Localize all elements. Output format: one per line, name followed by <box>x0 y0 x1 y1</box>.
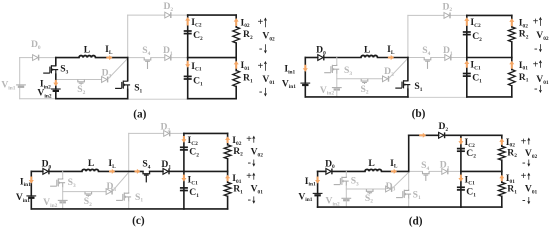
wire node up to D2 rail (b) <box>407 15 409 57</box>
arrow V01 down (b) <box>539 85 541 92</box>
current arrow IC2 (b) <box>464 17 469 26</box>
svg-text:(a): (a) <box>133 108 146 120</box>
switch S3 (b) <box>324 65 339 74</box>
battery Vin2 (b) <box>332 88 342 90</box>
svg-text:S4: S4 <box>142 45 150 57</box>
wire Vin2 to bottom (d) <box>345 200 347 207</box>
arrow V02 down (c) <box>253 160 255 166</box>
wire D2 rail right (d) <box>446 134 461 136</box>
svg-text:S2: S2 <box>77 84 85 96</box>
switch S4 (d) <box>423 171 430 181</box>
wire mid rail S4 to D1 (b) <box>431 57 445 59</box>
svg-text:V01: V01 <box>262 74 275 86</box>
arrow V02 up (d) <box>528 138 530 144</box>
wire S1 branch bottom (c) <box>128 202 130 209</box>
wire output box bottom rail (b) <box>467 96 512 98</box>
svg-text:S4: S4 <box>142 159 150 171</box>
svg-text:R1: R1 <box>507 184 517 196</box>
wire output box top rail (d) <box>461 134 502 136</box>
wire L to S4 (c) <box>99 170 144 172</box>
wire output box top rail (b) <box>467 14 512 16</box>
svg-text:S2: S2 <box>365 193 373 205</box>
current arrow IC2 (c) <box>181 136 186 143</box>
svg-text:D1: D1 <box>443 45 453 57</box>
svg-text:C2: C2 <box>189 147 199 159</box>
svg-text:C2: C2 <box>466 148 476 160</box>
wire S1 branch top (a) <box>127 58 129 81</box>
wire S2 path (d) <box>346 188 385 190</box>
wire S1 branch top (d) <box>408 171 410 189</box>
svg-text:L: L <box>368 158 374 169</box>
wire top rail right of L (d) <box>382 170 409 172</box>
diode D2 (c) <box>164 131 170 137</box>
wire output box top rail (c) <box>184 132 228 134</box>
svg-text:D3: D3 <box>384 66 394 78</box>
svg-text:S1: S1 <box>413 189 421 201</box>
wire top rail Vin1 to D0 (a) <box>20 57 33 59</box>
inductor L (a) <box>79 56 95 58</box>
svg-text:+: + <box>246 134 252 145</box>
wire R1 branch lower (c) <box>227 196 229 209</box>
svg-text:IL: IL <box>390 158 398 170</box>
wire C2 branch (d) <box>460 135 462 171</box>
switch S4 (c) <box>143 171 150 182</box>
wire bottom rail (d) <box>318 206 461 208</box>
wire output box middle rail (c) <box>184 170 228 172</box>
svg-text:C2: C2 <box>193 30 203 42</box>
svg-text:D3: D3 <box>106 181 116 193</box>
diode D0 (c) <box>43 169 49 175</box>
svg-text:-: - <box>248 158 251 169</box>
svg-text:-: - <box>534 44 537 55</box>
wire D0 to L (c) <box>50 170 82 172</box>
svg-text:D2: D2 <box>442 1 452 13</box>
current arrow into D2 (d) <box>419 133 426 138</box>
svg-text:V02: V02 <box>251 147 264 159</box>
wire mid rail D1 to box (b) <box>452 57 467 59</box>
diode D3 (d) <box>386 186 392 192</box>
arrow V01 down (a) <box>264 88 266 96</box>
svg-text:+: + <box>533 60 539 71</box>
svg-text:Vin2: Vin2 <box>320 85 334 97</box>
wire D2 rail right (b) <box>451 14 467 16</box>
svg-text:S3: S3 <box>68 177 76 189</box>
svg-text:+: + <box>246 171 252 182</box>
wire mid rail node to S4 (b) <box>408 57 424 59</box>
current arrow IC1 (b) <box>464 60 469 67</box>
wire D2 rail left (a) <box>128 14 165 16</box>
wire R1 branch upper (a) <box>235 58 237 71</box>
svg-text:Vin1: Vin1 <box>1 80 15 92</box>
wire R2 branch lower (b) <box>511 42 513 58</box>
diode D2 (b) <box>444 13 450 19</box>
diode D3 (b) <box>383 76 389 82</box>
wire mid rail node to S4 (a) <box>128 57 145 59</box>
current arrow into S4 (c) <box>135 169 141 174</box>
switch S1 (b) <box>395 80 410 89</box>
wire R2 branch upper (d) <box>501 135 503 146</box>
current arrow Iin2 (a) <box>53 80 58 86</box>
wire top rail right of L (b) <box>378 57 408 59</box>
current arrow Iin1 (b) <box>303 65 308 72</box>
svg-text:D0: D0 <box>31 39 41 51</box>
svg-text:L: L <box>84 44 90 55</box>
svg-text:IC2: IC2 <box>191 17 202 29</box>
wire C2 branch (c) <box>183 133 185 171</box>
svg-text:L: L <box>364 44 370 55</box>
wire S3 to Iin2 node (a) <box>55 74 57 89</box>
svg-text:Vin1: Vin1 <box>298 191 312 203</box>
current arrow I01 (b) <box>509 61 514 69</box>
svg-text:Iin1: Iin1 <box>305 176 316 188</box>
svg-text:D1: D1 <box>161 159 171 171</box>
diode D1 (c) <box>163 169 169 175</box>
wire S3 to Vin2 (b) <box>336 74 338 88</box>
wire R2 branch upper (b) <box>511 15 513 27</box>
svg-text:Iin1: Iin1 <box>20 176 31 188</box>
battery Vin2 (a) <box>51 89 61 91</box>
current arrow IC1 (d) <box>458 175 463 182</box>
wire node up to D2 rail (c) <box>128 133 130 171</box>
svg-text:R1: R1 <box>243 73 253 85</box>
wire Vin1 branch upper (b) <box>304 58 306 84</box>
diode D0 (a) <box>33 55 39 61</box>
svg-text:R1: R1 <box>519 72 529 84</box>
svg-text:S4: S4 <box>421 160 429 172</box>
wire S1 branch bottom (a) <box>127 89 129 98</box>
wire mid rail node to S4 (d) <box>409 170 423 172</box>
arrow V02 down (b) <box>539 44 541 51</box>
wire Vin2 to bottom (c) <box>62 202 64 209</box>
current arrow I02 (a) <box>234 18 239 26</box>
wire top rail Vin1 to D0 (b) <box>305 57 318 59</box>
current arrow IL (c) <box>109 169 115 174</box>
wire Vin2 to bottom (a) <box>55 91 57 99</box>
current arrow IC1 (c) <box>181 175 186 182</box>
current arrow IC2 (a) <box>185 17 190 26</box>
svg-text:D1: D1 <box>163 45 173 57</box>
svg-text:I02: I02 <box>241 17 250 29</box>
wire S2 path (c) <box>63 191 106 193</box>
svg-text:D2: D2 <box>163 1 173 13</box>
svg-text:+: + <box>257 61 263 72</box>
resistor R1 (b) <box>508 70 515 86</box>
svg-text:-: - <box>259 44 262 55</box>
svg-text:D1: D1 <box>440 160 450 172</box>
wire bottom link to box (a) <box>128 98 188 100</box>
resistor R2 (d) <box>498 146 505 160</box>
svg-text:R2: R2 <box>507 147 517 159</box>
wire R2 branch lower (c) <box>227 159 229 172</box>
wire bottom rail (a) <box>56 98 128 100</box>
wire output box top rail (a) <box>188 14 237 16</box>
svg-text:IC2: IC2 <box>188 135 199 147</box>
wire R1 branch lower (a) <box>235 87 237 99</box>
svg-text:V02: V02 <box>262 31 275 43</box>
svg-text:V02: V02 <box>536 30 549 42</box>
wire R1 branch upper (d) <box>501 171 503 182</box>
current arrow I02 (c) <box>225 136 230 143</box>
resistor R2 (c) <box>224 145 231 159</box>
current arrow I02 (b) <box>509 18 514 26</box>
svg-text:D2: D2 <box>160 122 170 134</box>
svg-text:R1: R1 <box>233 184 243 196</box>
svg-text:+: + <box>521 136 527 147</box>
switch S1 (a) <box>115 80 130 89</box>
svg-text:R2: R2 <box>519 29 529 41</box>
switch S1 (c) <box>116 192 131 201</box>
wire D0 to L (d) <box>333 170 365 172</box>
capacitor C2 (b) <box>463 32 471 35</box>
battery Vin1 (a) <box>16 85 26 87</box>
wire C1 branch (d) <box>460 171 462 207</box>
wire C1 branch (b) <box>466 58 468 97</box>
wire Vin1 branch lower (c) <box>30 198 32 209</box>
svg-text:C2: C2 <box>472 31 482 43</box>
switch S2 (b) <box>361 79 368 84</box>
svg-text:D0: D0 <box>316 45 326 57</box>
arrow V01 up (c) <box>253 174 255 180</box>
resistor R1 (d) <box>498 182 505 196</box>
svg-text:-: - <box>534 84 537 95</box>
wire D2 rail left (b) <box>408 14 444 16</box>
svg-text:I01: I01 <box>241 60 250 72</box>
wire top rail left of L (a) <box>56 57 79 59</box>
wire S3 branch top (c) <box>62 171 64 178</box>
arrow V01 up (a) <box>264 62 266 71</box>
svg-text:(b): (b) <box>412 108 426 120</box>
battery Vin1 (b) <box>300 83 310 85</box>
switch S3 (a) <box>43 65 58 74</box>
svg-text:V01: V01 <box>525 184 538 196</box>
wire R1 branch lower (b) <box>511 86 513 97</box>
current arrow I01 (c) <box>225 175 230 182</box>
current arrow I01 (d) <box>499 175 504 182</box>
resistor R2 (a) <box>233 27 240 43</box>
wire bottom link to box (b) <box>408 96 467 98</box>
svg-text:V01: V01 <box>536 74 549 86</box>
wire mid rail S4 to D1 (a) <box>151 57 165 59</box>
switch S4 (a) <box>144 58 151 69</box>
capacitor C2 (a) <box>184 31 192 34</box>
wire Vin1 branch lower (b) <box>304 85 306 97</box>
wire R1 branch upper (c) <box>227 171 229 182</box>
wire R1 branch upper (b) <box>511 58 513 70</box>
svg-text:V02: V02 <box>525 148 538 160</box>
battery Vin2 (d) <box>341 198 351 200</box>
diode D0 (b) <box>318 55 324 61</box>
resistor R1 (c) <box>224 182 231 196</box>
svg-text:IL: IL <box>387 44 395 56</box>
diode D1 (d) <box>442 169 448 175</box>
diode D2 (a) <box>165 12 171 18</box>
inductor L (c) <box>82 169 98 171</box>
wire diagonal D3 to node (b) <box>389 58 408 78</box>
svg-text:S1: S1 <box>134 83 142 95</box>
arrow V01 down (c) <box>253 196 255 203</box>
wire R1 branch lower (d) <box>501 196 503 207</box>
switch S2 (d) <box>366 189 373 194</box>
current arrow IC2 (d) <box>458 138 463 145</box>
switch S2 (c) <box>85 192 92 197</box>
wire D2 rail left (d) <box>409 134 439 136</box>
svg-text:C1: C1 <box>193 76 203 88</box>
svg-text:IL: IL <box>108 158 116 170</box>
wire top rail right of L (a) <box>96 57 128 59</box>
switch S3 (d) <box>334 177 349 186</box>
svg-text:IC1: IC1 <box>188 175 199 187</box>
svg-text:IC2: IC2 <box>470 17 481 29</box>
current arrow Iin1 (c) <box>29 177 34 184</box>
wire bottom rail (c) <box>31 208 184 210</box>
wire S1 branch top (c) <box>128 171 130 192</box>
wire R2 branch lower (a) <box>235 43 237 58</box>
svg-text:(d): (d) <box>409 215 423 227</box>
switch S3 (c) <box>50 178 65 187</box>
wire bottom Vin1 segment (a) <box>20 98 56 100</box>
wire Vin1 branch upper (c) <box>30 171 32 196</box>
diode D0 (d) <box>326 169 332 175</box>
svg-text:S3: S3 <box>60 64 68 76</box>
svg-text:IC1: IC1 <box>470 60 481 72</box>
capacitor C2 (d) <box>457 149 465 152</box>
current arrow IL (a) <box>106 55 112 60</box>
arrow V02 up (a) <box>264 18 266 27</box>
svg-text:R2: R2 <box>233 146 243 158</box>
diode D3 (c) <box>106 189 112 195</box>
capacitor C1 (a) <box>184 76 192 79</box>
wire bottom rail (b) <box>305 96 408 98</box>
battery Vin2 (c) <box>58 200 68 202</box>
svg-text:I01: I01 <box>519 60 528 72</box>
svg-text:D3: D3 <box>102 68 112 80</box>
svg-text:S3: S3 <box>351 176 359 188</box>
svg-text:Vin1: Vin1 <box>16 192 30 204</box>
svg-text:+: + <box>521 171 527 182</box>
svg-text:S1: S1 <box>135 192 143 204</box>
wire mid rail D1 to box (d) <box>449 170 461 172</box>
svg-text:C1: C1 <box>189 187 199 199</box>
svg-text:S1: S1 <box>414 81 422 93</box>
wire output box bottom rail (a) <box>188 98 237 100</box>
battery Vin1 (d) <box>313 193 323 195</box>
svg-text:IC1: IC1 <box>465 175 476 187</box>
svg-text:-: - <box>522 195 525 206</box>
svg-text:C1: C1 <box>466 187 476 199</box>
wire D1 to box (c) <box>170 170 184 172</box>
svg-text:R2: R2 <box>243 29 253 41</box>
capacitor C2 (c) <box>180 147 188 150</box>
switch S4 (b) <box>424 58 431 69</box>
svg-text:S3: S3 <box>344 65 352 77</box>
svg-text:C1: C1 <box>472 73 482 85</box>
svg-text:D2: D2 <box>438 121 448 133</box>
svg-text:L: L <box>88 158 94 169</box>
wire S3 to Vin2 (d) <box>345 186 347 199</box>
wire output box middle rail (d) <box>461 170 502 172</box>
wire node up to D2 rail (d) <box>408 135 410 171</box>
wire node up to D2 rail (a) <box>127 15 129 58</box>
wire output box middle rail (a) <box>188 57 237 59</box>
svg-text:D0: D0 <box>325 158 335 170</box>
wire output box middle rail (b) <box>467 57 512 59</box>
wire C2 branch (a) <box>187 15 189 58</box>
battery Vin1 (c) <box>26 196 36 198</box>
inductor L (b) <box>361 55 377 57</box>
wire S3 branch top (d) <box>345 171 347 176</box>
arrow V01 down (d) <box>528 197 530 203</box>
resistor R2 (b) <box>508 27 515 42</box>
wire Vin1 branch upper (d) <box>317 171 319 193</box>
wire Vin2 to bottom (b) <box>336 90 338 97</box>
svg-text:S2: S2 <box>360 84 368 96</box>
wire S2 path (a) <box>56 79 102 81</box>
current arrow I02 (d) <box>499 138 504 145</box>
capacitor C1 (c) <box>180 188 188 191</box>
switch S2 (a) <box>78 80 85 85</box>
wire Vin1 left branch (a) <box>19 58 21 99</box>
diode D1 (b) <box>445 55 451 61</box>
svg-text:+: + <box>533 16 539 27</box>
svg-text:Vin2: Vin2 <box>43 197 57 209</box>
arrow V02 down (d) <box>528 160 530 166</box>
wire S3 branch top (a) <box>55 58 57 66</box>
wire D0 to L (b) <box>325 57 361 59</box>
wire top rail Vin1 to D0 (d) <box>318 170 326 172</box>
svg-text:Vin1: Vin1 <box>282 78 296 90</box>
current arrow IL (b) <box>388 55 394 60</box>
svg-text:-: - <box>259 87 262 98</box>
wire S1 branch top (b) <box>407 58 409 81</box>
switch S1 (d) <box>396 190 411 199</box>
wire R2 branch upper (c) <box>227 133 229 144</box>
wire D2 rail right (a) <box>172 14 188 16</box>
current arrow Iin1 (d) <box>315 177 320 184</box>
current arrow IC1 (a) <box>185 61 190 68</box>
arrow V02 up (b) <box>539 18 541 26</box>
wire mid rail D1 to box (a) <box>172 57 188 59</box>
wire diagonal D3 to node (a) <box>108 58 127 78</box>
wire R2 branch upper (a) <box>235 15 237 27</box>
svg-text:S4: S4 <box>422 45 430 57</box>
arrow V01 up (d) <box>528 174 530 180</box>
arrow V01 up (b) <box>539 61 541 68</box>
wire C1 branch (a) <box>187 58 189 99</box>
wire Vin1 branch lower (d) <box>317 195 319 207</box>
svg-text:V01: V01 <box>251 184 264 196</box>
wire S3 to Vin2 (c) <box>62 187 64 200</box>
wire S4 to D1 (c) <box>150 170 163 172</box>
svg-text:-: - <box>522 158 525 169</box>
wire output box bottom rail (c) <box>184 208 228 210</box>
svg-text:IL: IL <box>105 44 113 56</box>
wire D2 rail right (c) <box>171 132 184 134</box>
wire R2 branch lower (d) <box>501 160 503 171</box>
wire diagonal D3 to node (d) <box>393 172 409 188</box>
svg-text:Iin1: Iin1 <box>284 64 295 76</box>
svg-text:Vin2: Vin2 <box>326 196 340 208</box>
wire D2 rail left (c) <box>129 132 164 134</box>
diode D2 (d) <box>439 132 445 138</box>
svg-text:(c): (c) <box>132 215 145 227</box>
resistor R1 (a) <box>233 71 240 87</box>
diode D1 (a) <box>165 55 171 61</box>
wire diagonal D3 to node (c) <box>113 172 129 190</box>
arrow V02 up (c) <box>253 137 255 143</box>
svg-text:-: - <box>248 195 251 206</box>
wire D0 to node (a) <box>40 57 56 59</box>
current arrow IL (d) <box>391 169 397 174</box>
